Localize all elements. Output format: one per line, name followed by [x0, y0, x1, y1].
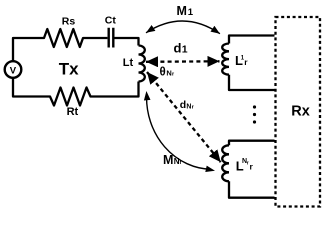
svg-text:M: M [177, 4, 187, 18]
voltage source V [5, 61, 22, 78]
wire: Tx top rail left segment [13, 38, 41, 61]
inductor Lt [139, 46, 145, 82]
wire: Rs to Ct [85, 37, 107, 39]
receiver loop L1r top wires [229, 36, 275, 44]
wire: bottom rail to source [13, 78, 47, 96]
receiver loop LNr bottom wires [229, 181, 275, 197]
wire: Ct to top-right corner [115, 38, 139, 46]
capacitor Ct [109, 28, 114, 48]
resistor Rt [47, 88, 95, 106]
svg-text:Rt: Rt [67, 106, 79, 118]
svg-text:N: N [166, 68, 171, 77]
arrow dNr dashed diagonal [147, 72, 221, 162]
svg-text:Tx: Tx [59, 59, 79, 78]
wire: Lt to bottom rail [94, 82, 139, 97]
svg-text:Rx: Rx [291, 104, 310, 120]
arrow d1 dashed [146, 60, 220, 63]
svg-text:Rs: Rs [62, 15, 76, 27]
svg-text:θ: θ [160, 66, 166, 78]
svg-text:V: V [10, 65, 17, 76]
svg-text:r: r [244, 57, 248, 67]
arrowhead MNr bottom [205, 166, 215, 172]
dots between receiver loops [253, 105, 256, 108]
svg-text:r: r [192, 104, 195, 110]
inductor L1r [222, 44, 229, 75]
svg-text:1: 1 [188, 7, 194, 18]
svg-text:r: r [250, 161, 254, 171]
svg-text:d: d [180, 99, 186, 111]
svg-text:r: r [172, 71, 175, 77]
svg-text:r: r [247, 161, 249, 167]
resistor Rs [41, 29, 85, 47]
svg-text:1: 1 [182, 44, 188, 56]
arrow MNr arc [147, 95, 212, 170]
receiver loop L1r bottom wires [229, 75, 275, 90]
svg-text:Lt: Lt [123, 57, 134, 69]
svg-text:M: M [163, 153, 173, 167]
arrowhead MNr top [144, 91, 151, 101]
svg-text:Ct: Ct [105, 15, 117, 27]
Rx dashed box [276, 17, 321, 207]
arrow M1 arc [146, 21, 220, 34]
receiver loop LNr top wires [229, 141, 275, 146]
svg-text:d: d [174, 41, 182, 56]
inductor LNr [222, 145, 229, 181]
